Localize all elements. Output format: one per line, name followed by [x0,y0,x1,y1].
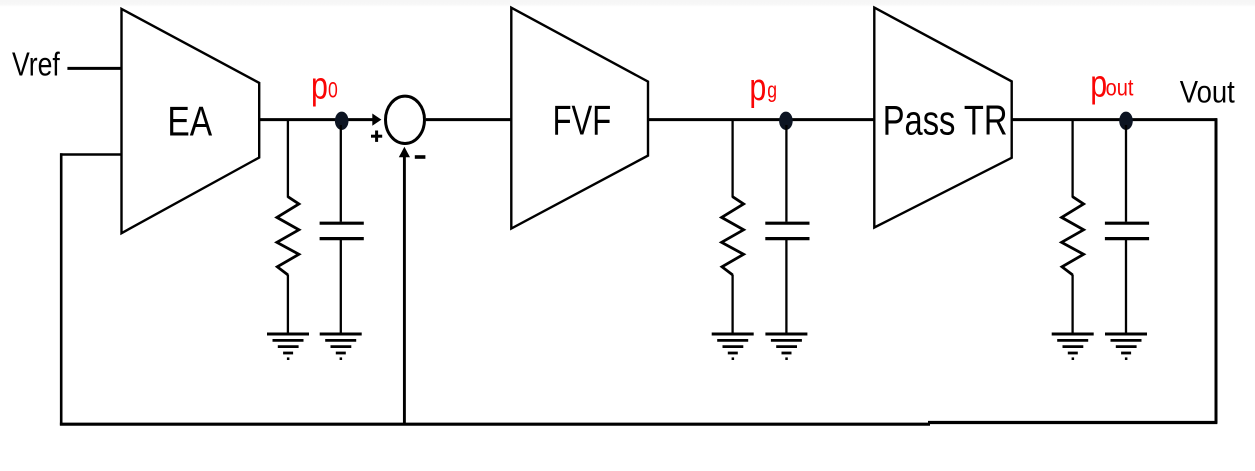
svg-text:p: p [311,65,328,107]
wire R2 to ground [731,275,733,334]
svg-text:Vout: Vout [1180,75,1235,110]
block Pass TR [874,8,1011,228]
wire EA output [259,118,373,121]
summing junction arrow in [372,114,381,126]
svg-text:EA: EA [167,99,212,145]
node pg label [749,67,777,109]
ground below R2 [712,334,754,359]
wire Pass TR output [1012,118,1217,121]
wire bottom feedback left segment [60,423,930,426]
resistor R3 [1062,197,1084,275]
resistor R1 [277,197,299,275]
wire resistor R3 branch [1071,120,1073,198]
svg-text:0: 0 [328,79,338,103]
svg-text:p: p [1090,63,1107,105]
wire C2 to ground [785,240,787,334]
ground below C3 [1105,334,1147,359]
svg-text:Pass TR: Pass TR [883,96,1008,143]
label Vref [12,47,60,84]
svg-text:p: p [749,67,766,109]
capacitor C2 [765,223,809,238]
wire right feedback vertical [1215,118,1218,423]
label Vout [1180,75,1235,110]
node pout label [1090,63,1133,105]
resistor R2 [722,197,744,275]
wire left feedback vertical [60,153,63,425]
node pg junction dot [779,112,793,130]
wire R3 to ground [1071,275,1073,334]
node p0 label [311,65,338,107]
svg-text:out: out [1106,74,1134,101]
wire capacitor C1 branch [340,125,342,222]
wire FVF output [648,118,874,121]
ground below R3 [1052,334,1094,359]
svg-text:FVF: FVF [553,97,612,144]
node pout junction dot [1119,112,1133,130]
node p0 junction dot [335,112,349,130]
capacitor C1 [320,223,364,238]
wire bottom feedback right segment [928,421,1217,424]
wire R1 to ground [287,275,289,334]
wire resistor R2 branch [731,120,733,198]
wire C1 to ground [340,240,342,334]
summing plus sign [371,131,382,142]
summing junction U1 [386,96,425,143]
ground below C1 [320,334,362,359]
svg-text:g: g [767,79,777,103]
wire capacitor C2 branch [785,125,787,222]
block FVF [511,8,648,229]
wire Vref input [67,67,122,70]
op-amp block EA [122,9,260,233]
wire C3 to ground [1125,240,1127,334]
wire capacitor C3 branch [1125,125,1127,222]
svg-text:Vref: Vref [12,47,60,84]
wire summing output [426,118,511,121]
arrow feedback up [399,147,410,158]
wire feedback into summing junction [403,157,406,424]
wire resistor R1 branch [287,120,289,198]
summing minus sign [415,155,426,159]
wire EA feedback input [60,153,122,156]
capacitor C3 [1105,223,1149,238]
ground below C2 [765,334,807,359]
ground below R1 [267,334,309,359]
